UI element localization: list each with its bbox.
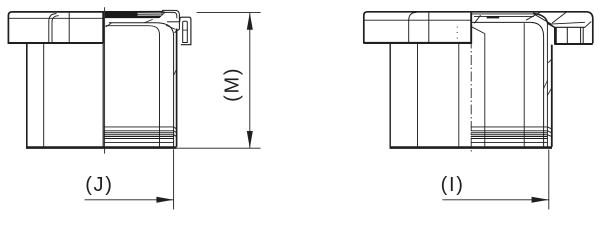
right view: flange inner chamfer line xyxy=(364,19,471,21)
dim I extension line xyxy=(548,150,550,210)
right section: thread line 5 xyxy=(471,136,548,138)
right view: flange outer outline xyxy=(364,12,593,44)
right view: flange bottom edge xyxy=(363,42,471,44)
left section: thread line 7 xyxy=(104,141,174,143)
dim J arrow line xyxy=(85,199,174,201)
right: cutaway hatch 2 xyxy=(526,12,540,20)
right: under-cut diagonal xyxy=(471,27,485,34)
right: underside curve into inner wall xyxy=(471,22,543,146)
dim M bottom extension line xyxy=(177,147,261,149)
dim M arrowhead bottom xyxy=(247,131,253,148)
left section: thread line 2 xyxy=(104,131,177,133)
right: body bottom edge xyxy=(390,146,553,149)
dim I arrowhead xyxy=(532,197,549,203)
left section: thread line 1 xyxy=(104,127,177,129)
left view: flange face right edge xyxy=(102,12,104,43)
left section: band white streak 1 xyxy=(138,12,164,14)
left section: flange end top line xyxy=(162,10,179,21)
svg-text:(M): (M) xyxy=(222,67,244,102)
right: tab bottom edge xyxy=(555,43,593,45)
dim M dimension line xyxy=(249,13,251,149)
svg-text:(I): (I) xyxy=(441,174,465,196)
right: axis centerline dash-dot xyxy=(470,22,472,154)
left: body bottom edge xyxy=(26,146,177,149)
left view: body inner line xyxy=(43,44,45,147)
left section: thread line 6 xyxy=(104,138,174,140)
left section: band white streak 2 xyxy=(138,14,162,16)
right: tab inner vertical 1 xyxy=(566,27,568,43)
left view: flange inner chamfer line xyxy=(8,17,103,19)
dim J arrowhead xyxy=(156,197,173,203)
left section: top wall cut (black band) xyxy=(105,11,166,18)
right: outer wall line xyxy=(546,24,548,147)
left section: thread line 4 xyxy=(104,135,177,137)
right: outer wall tick 1 xyxy=(544,81,548,89)
left section: flange end chamfer line xyxy=(161,12,177,18)
left section: lower inner curve into bore xyxy=(106,26,160,147)
right section: thread line 6 xyxy=(471,138,548,140)
left section: upper inner curve xyxy=(109,23,174,147)
right: cutaway top thin line 2 xyxy=(474,15,534,17)
left section: centerline xyxy=(104,7,106,153)
left section: outer wall tick xyxy=(174,69,177,76)
right: step silhouette xyxy=(533,13,555,27)
svg-text:(J): (J) xyxy=(85,174,113,196)
right: tab top edge xyxy=(555,26,585,28)
dim I arrow line xyxy=(442,199,548,201)
right: ledge line to corner xyxy=(548,22,585,24)
left section: hatch 1 xyxy=(106,23,112,27)
left section: thread line 3 xyxy=(104,132,174,134)
right view: body left edge xyxy=(389,44,391,147)
right: cutaway top thin line 1 xyxy=(471,13,538,15)
right: tab fat left bar xyxy=(554,27,557,44)
left section: outer wall silhouette xyxy=(176,29,178,147)
dim M arrowhead top xyxy=(247,13,253,30)
right: corner chamfer diagonal xyxy=(552,12,566,23)
left section: tab inner profile xyxy=(183,21,188,42)
left view: flange step fillet line b xyxy=(52,16,59,43)
dim J extension line xyxy=(173,149,175,209)
right section: thread line 2 xyxy=(471,131,552,133)
right section: thread line 4 xyxy=(471,135,552,137)
right section: thread line 3 xyxy=(471,132,548,134)
right section: thread line 1 xyxy=(471,127,552,129)
right: outer wall tick 2 xyxy=(547,88,551,96)
left section: ledge xyxy=(167,21,179,23)
dim M top extension line xyxy=(197,12,261,14)
right: tab inner corner slope xyxy=(585,22,591,28)
right: outer wall tick 3 xyxy=(548,58,552,63)
left section: hatch 2 xyxy=(145,19,153,22)
right section: thread line 7 xyxy=(471,141,548,143)
left section: tab inner hole line xyxy=(183,29,188,31)
right: outer silhouette below tab xyxy=(551,45,553,147)
right: tab inner vertical 2 xyxy=(580,27,582,43)
left view: flange bottom edge xyxy=(8,42,104,44)
left view: flange step fillet line a xyxy=(49,14,57,43)
left view: flange face line xyxy=(68,12,70,43)
right: cutaway black dash xyxy=(487,16,500,18)
left view: body seam at section boundary xyxy=(102,44,104,147)
left section: tab left leg and chamfer xyxy=(174,22,179,33)
right view: body line xyxy=(417,44,419,147)
right: main bore line xyxy=(523,23,525,146)
right: cutaway hatch 1 xyxy=(474,15,480,23)
right: tab inner vertical 3 xyxy=(582,27,584,43)
right view: flange fillet face line xyxy=(409,12,417,43)
right: bore line right xyxy=(484,34,486,147)
right: hidden dotted edge xyxy=(456,27,458,41)
left section: thread line 5 xyxy=(104,136,174,138)
right: section cut edge xyxy=(470,13,472,44)
left section: under-ledge diagonal xyxy=(166,25,175,29)
left view: body left edge xyxy=(26,44,28,147)
left section: tab outer profile xyxy=(180,17,191,45)
right: bore line left xyxy=(458,44,460,147)
left view: flange outer outline xyxy=(8,12,104,43)
right view: flange face line xyxy=(428,12,430,43)
right: cutaway long hatch xyxy=(534,14,551,24)
